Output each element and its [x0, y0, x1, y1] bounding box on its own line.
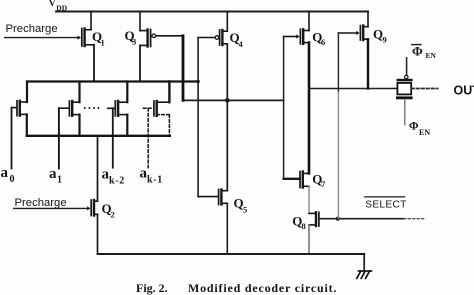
wire Q8 source down to ground rail	[308, 225, 310, 254]
svg-text:k-2: k-2	[109, 176, 125, 187]
wire precharge bottom to Q2 gate	[14, 207, 87, 209]
wire Q7 source to Q8 drain (grey)	[308, 186, 310, 213]
svg-text:Modified decoder circuit.: Modified decoder circuit.	[188, 281, 337, 295]
wire phi_EN stub (grey)	[404, 100, 406, 125]
node ground rail	[98, 253, 365, 255]
node VDD rail	[56, 11, 368, 13]
wire Q3 gate line down to node Y bus (thick)	[182, 36, 185, 101]
ellipsis between M2 and M3	[84, 107, 100, 109]
label Q2	[102, 201, 115, 220]
svg-text:a: a	[1, 165, 9, 181]
wire Q3 drain down to node X bus	[139, 45, 141, 81]
transistor M4 (NMOS input ak-1, dashed)	[143, 82, 169, 116]
net label phi_EN_bar	[412, 44, 437, 61]
wire Q4 drain column down to Q5	[226, 44, 228, 191]
svg-text:2: 2	[111, 210, 115, 220]
caption Fig. 2 Modified decoder circuit	[136, 281, 337, 295]
label Q8	[292, 214, 305, 232]
transistor Q3 (PMOS keeper, mirrored)	[140, 12, 183, 47]
svg-text:1: 1	[101, 38, 105, 48]
svg-text:V: V	[49, 0, 56, 9]
node X bus (precharged node)	[27, 80, 198, 82]
label Q4	[230, 30, 244, 49]
wire ak-2 gate drop	[112, 108, 114, 167]
node Y bus (inverter output)	[183, 99, 284, 101]
transistor M3 (NMOS input ak-2)	[108, 82, 127, 116]
transistor Q6 (PMOS output stage)	[284, 12, 309, 44]
svg-text:0: 0	[10, 174, 15, 185]
wire Q6 drain column down to Q7 (thick)	[308, 43, 311, 174]
svg-text:a: a	[49, 166, 57, 182]
svg-text:Precharge: Precharge	[15, 197, 67, 209]
net label phi_EN	[409, 121, 430, 138]
wire Q2 source down to ground rail	[97, 214, 99, 254]
junction X bus to gate line	[196, 80, 199, 83]
svg-text:EN: EN	[426, 51, 437, 60]
label Q9	[373, 27, 387, 45]
wire a0 gate drop	[11, 108, 13, 169]
label ak-1	[140, 166, 164, 186]
svg-text:EN: EN	[419, 128, 430, 137]
svg-text:Precharge: Precharge	[6, 23, 58, 35]
svg-text:1: 1	[57, 175, 62, 186]
wire Q5 source down to ground rail	[226, 203, 228, 254]
label a1	[49, 166, 62, 186]
label a0	[1, 165, 15, 185]
ground symbol	[357, 271, 372, 278]
svg-text:k-1: k-1	[147, 175, 163, 186]
label Q5	[234, 196, 248, 215]
wire Q9 gate line down to SELECT	[337, 33, 339, 92]
transistor Q4 (PMOS of inverter)	[198, 12, 227, 46]
svg-text:SELECT: SELECT	[365, 200, 407, 211]
svg-text:5: 5	[243, 205, 247, 215]
net label VDD	[49, 0, 68, 12]
wire ground stub	[363, 254, 365, 271]
label Q7	[312, 172, 326, 190]
label Q6	[312, 30, 325, 48]
wire ak-1 gate drop (dashed)	[147, 108, 149, 167]
transmission gate pass element	[396, 75, 413, 99]
svg-text:OUT: OUT	[454, 84, 474, 98]
wire M3 source to bottom bus	[126, 115, 128, 136]
junction dot node Y	[225, 98, 230, 103]
svg-text:6: 6	[321, 37, 325, 47]
svg-text:3: 3	[132, 37, 136, 47]
node array bottom bus	[27, 135, 170, 137]
label ak-2	[102, 167, 126, 187]
svg-text:Fig. 2.: Fig. 2.	[136, 281, 168, 295]
transistor M1 (NMOS input a0)	[12, 82, 28, 116]
wire a1 gate drop	[58, 108, 60, 168]
transistor Q7 (NMOS output stage)	[284, 172, 309, 188]
svg-text:DD: DD	[56, 3, 67, 12]
transistor Q2 (precharge pull-down)	[87, 136, 97, 216]
wire M4 source to bottom bus (dashed)	[168, 115, 170, 136]
wire precharge top to Q1 gate	[5, 37, 77, 39]
transistor Q1 (PMOS precharge)	[78, 12, 95, 47]
transistor Q5 (NMOS of inverter)	[198, 190, 227, 205]
label Q1	[92, 29, 105, 48]
transistor Q9 (PMOS enable)	[338, 12, 368, 41]
transistor M2 (NMOS input a1)	[59, 82, 80, 116]
wire Q6/Q7 gate vertical	[283, 37, 285, 179]
wire Q9 drain column down to OUT bus (thick)	[367, 39, 369, 88]
wire Q4/Q5 gate vertical	[197, 38, 199, 197]
wire OUT (dashed)	[411, 88, 437, 90]
svg-text:8: 8	[302, 221, 306, 231]
transistor Q8 (NMOS select, mirrored)	[309, 212, 319, 226]
node OUT bus	[309, 88, 397, 90]
wire phi_EN_bar stub	[406, 58, 408, 75]
svg-text:9: 9	[383, 35, 387, 45]
label Q3	[125, 28, 137, 47]
junction dot SELECT / Q9 gate	[336, 217, 340, 221]
wire M1 source to bottom bus	[26, 114, 28, 135]
wire M2 source to bottom bus	[78, 115, 80, 136]
wire SELECT to Q8/Q9 gates	[320, 218, 404, 220]
svg-text:Φ: Φ	[412, 44, 423, 59]
svg-text:Φ: Φ	[409, 121, 419, 133]
wire Q1 drain down to node X bus	[93, 45, 95, 82]
